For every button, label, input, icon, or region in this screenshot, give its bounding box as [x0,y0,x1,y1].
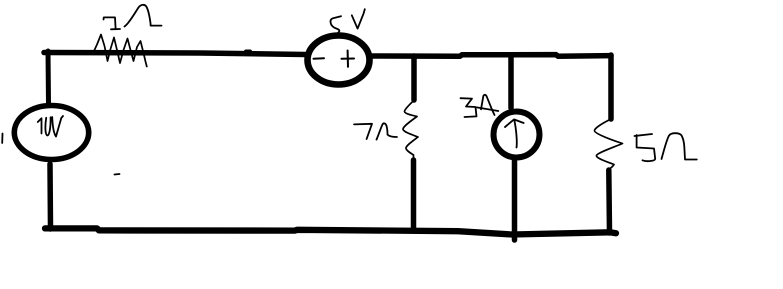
wire: R2 bottom stub [411,160,417,231]
voltage source V2 (5V) [308,36,370,85]
current source I1 (3A) [494,112,540,158]
label: 5V (above V2) [331,9,365,32]
wire: left vertical (top corner to V1) [46,51,52,104]
resistor R2 (7 ohm squiggle) [403,101,418,160]
label: 7 ohm [354,123,397,139]
resistor R1 (2 ohm zigzag) [94,35,147,67]
wire: I1 bottom stub [512,160,518,240]
wire: R3 top stub [608,55,614,119]
stray mark: small dash near V1 [115,173,120,176]
label: 2 ohm [104,5,162,29]
label: minus sign (V2) [314,57,325,60]
label: 3A [461,95,499,117]
wire: top-left horizontal rail [44,52,305,55]
wire: R3 bottom stub [606,170,612,233]
wire: V2 right to top-right rail [372,55,611,57]
label: arrow inside I1 [505,119,524,147]
resistor R3 (5 ohm squiggle) [594,120,622,170]
stray mark: left edge tick [1,134,3,144]
wire: V1 bottom stub [47,164,53,229]
voltage source V1 (10V) [14,106,88,160]
label: 10V (inside V1) [38,116,63,137]
label: plus sign (V2) [342,51,355,67]
wire: R2 top stub [411,56,417,100]
wire: I1 top stub [508,57,514,108]
label: 5 ohm [635,133,697,161]
wire: bottom rail [45,228,616,234]
